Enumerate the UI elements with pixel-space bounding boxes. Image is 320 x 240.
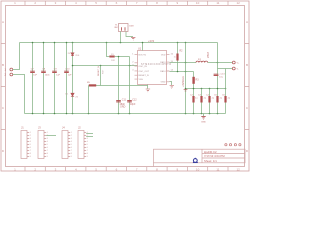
svg-text:C11: C11	[122, 99, 127, 102]
connector J2 pin numbers	[87, 132, 88, 158]
junction dots bottom bus	[32, 113, 219, 115]
connector J3 pin numbers	[47, 132, 48, 158]
diode D2 labels	[68, 53, 80, 57]
svg-text:B: B	[2, 63, 4, 67]
output pin X2	[232, 67, 235, 70]
svg-text:VSS: VSS	[139, 79, 144, 81]
connector J3	[38, 131, 46, 159]
svg-text:8: 8	[30, 153, 31, 155]
svg-text:4: 4	[71, 141, 72, 143]
connector J4	[62, 131, 70, 159]
crystal Y1 electrodes	[122, 27, 126, 31]
svg-text:7: 7	[71, 150, 72, 152]
svg-text:7: 7	[47, 150, 48, 152]
capacitor C3	[200, 96, 202, 103]
svg-text:lqsd30.C2: lqsd30.C2	[204, 150, 217, 154]
svg-text:A: A	[246, 20, 248, 24]
svg-text:Sheet: 1/1: Sheet: 1/1	[204, 159, 217, 163]
svg-text:10R: 10R	[111, 60, 115, 62]
diode D1 labels	[65, 94, 78, 99]
wire pin P1 to top bus	[13, 43, 20, 70]
wire C8 vertical	[43, 43, 45, 114]
svg-text:RST: RST	[103, 69, 105, 74]
IC U1 right pins	[167, 55, 170, 82]
svg-text:RESET_N: RESET_N	[98, 65, 100, 76]
svg-text:8: 8	[87, 153, 88, 155]
wire C12 vertical	[129, 57, 131, 114]
svg-text:2: 2	[71, 135, 72, 137]
wire right column x217.5	[217, 43, 219, 114]
ground right of U1	[170, 86, 174, 89]
svg-text:5: 5	[47, 144, 48, 146]
wire to output pin X1	[218, 62, 233, 64]
capacitor C4 labels	[206, 95, 215, 100]
pin P1	[10, 68, 13, 71]
svg-text:9: 9	[71, 156, 72, 158]
svg-text:10: 10	[196, 1, 200, 5]
crystal Y1 labels	[114, 24, 133, 29]
capacitor C7 labels	[31, 69, 38, 77]
capacitor C4	[208, 96, 210, 103]
wire C4 vertical	[209, 89, 211, 114]
wire C6 vertical	[225, 69, 227, 114]
wire J2 stub 1	[86, 133, 93, 135]
svg-text:11: 11	[216, 1, 219, 5]
svg-text:16M: 16M	[129, 26, 133, 28]
svg-text:B: B	[246, 63, 248, 67]
svg-text:1: 1	[71, 132, 72, 134]
ground below U1 left	[146, 89, 150, 92]
svg-text:4: 4	[87, 141, 88, 143]
svg-text:3: 3	[30, 138, 31, 140]
capacitor C10 labels	[65, 69, 72, 77]
svg-text:7/17/13 4:04 PM: 7/17/13 4:04 PM	[204, 154, 225, 158]
wire J3 stub	[46, 135, 56, 137]
junction dot VDD drop	[142, 42, 144, 44]
wire node x73 vertical	[72, 43, 74, 114]
capacitor C12	[127, 100, 132, 102]
svg-text:8: 8	[47, 153, 48, 155]
wire R1 feed vertical	[107, 43, 110, 57]
svg-text:6: 6	[71, 147, 72, 149]
capacitor C2 labels	[190, 95, 198, 100]
svg-text:1uF: 1uF	[56, 74, 60, 76]
power flag on bank bus	[184, 90, 188, 91]
capacitor C5 labels	[214, 95, 223, 100]
wire +3V3 column x185.5	[185, 43, 187, 114]
wire J2 stub 2	[86, 136, 93, 138]
resistor R1	[109, 56, 114, 58]
capacitor C12 labels	[130, 99, 137, 107]
ground below bottom bus	[201, 114, 205, 120]
svg-text:4: 4	[30, 141, 31, 143]
svg-text:VBAT: VBAT	[207, 51, 210, 58]
inductor L1	[196, 61, 208, 62]
wire D1 junction to U1	[73, 65, 138, 67]
frame ticks sides	[1, 44, 249, 130]
capacitor C13	[214, 74, 219, 76]
title block text: project name	[204, 150, 225, 163]
connector J2	[78, 131, 86, 159]
capacitor C9 labels	[54, 69, 61, 77]
wire R2 pullup vertical	[177, 43, 179, 72]
svg-text:6: 6	[30, 147, 31, 149]
svg-text:OSC_OUT: OSC_OUT	[139, 71, 150, 73]
connector J4 pin numbers	[71, 132, 72, 158]
capacitor C2	[192, 96, 194, 103]
svg-text:11: 11	[216, 167, 219, 171]
capacitor C5	[216, 96, 218, 103]
IC U1 GND stub bottom	[147, 85, 149, 89]
crystal Y1 body	[119, 24, 129, 32]
wire U1 pin to L1	[170, 62, 197, 64]
junction dots y71	[177, 71, 179, 73]
junction dot xtal net	[129, 65, 131, 67]
svg-text:8: 8	[71, 153, 72, 155]
svg-text:4: 4	[47, 141, 48, 143]
title block logo	[193, 158, 198, 163]
svg-text:GND: GND	[201, 122, 206, 124]
svg-text:3: 3	[71, 138, 72, 140]
wire pin P2 to bottom bus	[13, 75, 25, 114]
capacitor C13 labels	[219, 74, 225, 79]
frame ticks bottom	[25, 167, 228, 171]
IC U1 body	[138, 51, 167, 85]
wire R1 to C11 branch	[115, 56, 130, 58]
svg-text:12: 12	[237, 1, 241, 5]
resistor R3	[192, 77, 194, 84]
title block outline	[154, 149, 246, 166]
svg-text:6: 6	[87, 147, 88, 149]
svg-text:5: 5	[71, 144, 72, 146]
frame column numbers	[14, 1, 240, 171]
wire C11 drop	[118, 57, 120, 114]
capacitor C6	[224, 96, 226, 103]
svg-text:C12: C12	[132, 99, 137, 102]
wire C10 vertical	[66, 43, 68, 114]
capacitor C6 labels	[222, 95, 231, 100]
wire U1 right GND pin	[170, 82, 172, 86]
junction dot X2 bus	[225, 88, 227, 90]
wire nrst drop	[100, 66, 102, 86]
svg-text:18pF: 18pF	[130, 103, 136, 106]
junction dot L1 net	[185, 62, 187, 64]
capacitor C7	[30, 71, 35, 73]
capacitor C9	[52, 71, 57, 73]
wire bottom GND bus	[25, 113, 226, 115]
frame outer border	[1, 1, 249, 171]
junction dot nrst net	[100, 65, 102, 67]
wire x88 drop to gnd bus	[88, 86, 90, 114]
diode D2	[71, 53, 74, 56]
wire L1 to right column	[208, 62, 218, 64]
wire R3 vertical	[193, 72, 195, 114]
capacitor C8	[41, 71, 46, 73]
wire nrst row y85.4	[89, 85, 148, 87]
svg-text:1: 1	[30, 132, 31, 134]
frame ticks top	[25, 1, 228, 5]
svg-text:VDD: VDD	[161, 55, 166, 57]
svg-text:9: 9	[47, 156, 48, 158]
resistor R5	[89, 84, 96, 86]
svg-text:GND: GND	[161, 82, 166, 84]
capacitor C8 labels	[42, 69, 50, 77]
svg-text:12: 12	[237, 167, 241, 171]
svg-text:1nF: 1nF	[33, 74, 37, 76]
wire cap bank top bus	[186, 88, 226, 90]
svg-text:PA13: PA13	[160, 61, 166, 64]
wire to output pin X2	[218, 68, 233, 70]
wire C2 vertical	[201, 89, 203, 114]
junction dots top bus left	[32, 42, 187, 44]
wire C9 vertical	[54, 43, 56, 114]
svg-text:V-: V-	[237, 69, 239, 71]
frame inner border	[6, 6, 245, 167]
wire C7 vertical	[32, 43, 34, 114]
capacitor C10	[64, 71, 69, 73]
connector J1 pin numbers	[30, 132, 31, 158]
svg-text:9: 9	[87, 156, 88, 158]
capacitor C3 labels	[198, 95, 207, 100]
connector J1	[21, 131, 29, 159]
frame row letters	[2, 20, 249, 153]
svg-text:9: 9	[30, 156, 31, 158]
svg-text:7: 7	[30, 150, 31, 152]
ground at crystal	[131, 37, 135, 40]
output pin X1	[232, 61, 235, 64]
svg-text:BOOT0: BOOT0	[139, 55, 147, 57]
junction dot R1 net	[118, 56, 120, 58]
mounting holes H1-H4	[225, 144, 241, 146]
crystal Y1 legs	[121, 32, 134, 43]
svg-text:A: A	[2, 20, 4, 24]
svg-text:5: 5	[87, 144, 88, 146]
svg-text:1: 1	[47, 132, 48, 134]
svg-text:100n: 100n	[45, 74, 51, 76]
IC U1 left pins	[135, 55, 138, 79]
svg-text:8M: 8M	[114, 27, 117, 29]
wire VDD drop to U1 top	[142, 43, 144, 51]
svg-text:5: 5	[30, 144, 31, 146]
svg-text:+C13: +C13	[219, 74, 225, 76]
junction dots cap bank top	[185, 88, 219, 90]
svg-text:7: 7	[87, 150, 88, 152]
IC U1 pin names	[139, 55, 167, 84]
pin P2	[10, 73, 13, 76]
svg-text:2: 2	[30, 135, 31, 137]
svg-text:GND: GND	[120, 106, 126, 109]
svg-text:3: 3	[87, 138, 88, 140]
IC U1 pin numbers	[132, 53, 173, 71]
svg-text:RESET_N: RESET_N	[139, 75, 150, 77]
wire top bus	[20, 42, 218, 44]
svg-text:+3V3: +3V3	[148, 39, 155, 43]
diode D1	[71, 93, 74, 96]
svg-text:6: 6	[47, 147, 48, 149]
svg-text:1uF: 1uF	[68, 74, 72, 76]
svg-text:10: 10	[196, 167, 200, 171]
svg-text:OSC_IN: OSC_IN	[139, 66, 148, 68]
svg-text:3: 3	[47, 138, 48, 140]
capacitor C11	[116, 100, 121, 102]
capacitor C11 labels	[120, 99, 127, 107]
junction dot D1 net	[72, 65, 74, 67]
svg-text:PA14: PA14	[160, 70, 166, 73]
resistor R2	[176, 54, 178, 61]
svg-text:+3V3REG: +3V3REG	[182, 76, 185, 87]
wire BOOT net y71	[170, 71, 194, 73]
